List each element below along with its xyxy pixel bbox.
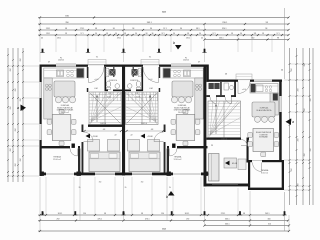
svg-text:8x18.8: 8x18.8 — [136, 97, 140, 99]
svg-text:BORAVAK: BORAVAK — [259, 136, 269, 139]
svg-text:292: 292 — [57, 219, 60, 221]
svg-text:363.1: 363.1 — [147, 22, 153, 24]
svg-text:298: 298 — [10, 107, 12, 110]
svg-text:Z2: Z2 — [114, 135, 116, 137]
svg-text:12.60 m2: 12.60 m2 — [53, 159, 61, 161]
svg-text:12.60 m2: 12.60 m2 — [174, 159, 182, 161]
svg-text:2.08/5.00: 2.08/5.00 — [221, 138, 227, 140]
svg-text:36: 36 — [150, 28, 152, 30]
svg-text:a: a — [17, 106, 19, 110]
svg-text:26.65 m2: 26.65 m2 — [61, 112, 69, 114]
svg-text:350: 350 — [141, 182, 144, 184]
svg-text:2.08/5.00: 2.08/5.00 — [141, 123, 147, 125]
svg-text:236.1: 236.1 — [222, 22, 228, 24]
svg-text:350: 350 — [99, 182, 102, 184]
svg-text:Z2: Z2 — [130, 135, 132, 137]
svg-text:408: 408 — [151, 129, 154, 131]
svg-text:787: 787 — [162, 11, 167, 14]
svg-text:298: 298 — [20, 59, 22, 62]
svg-text:98: 98 — [124, 33, 126, 35]
svg-text:98: 98 — [132, 28, 134, 30]
svg-text:36: 36 — [199, 33, 201, 35]
svg-text:240/120: 240/120 — [58, 60, 64, 62]
svg-text:324.1: 324.1 — [222, 28, 227, 30]
svg-text:298: 298 — [15, 129, 17, 132]
svg-text:36: 36 — [152, 33, 154, 35]
svg-text:98: 98 — [65, 28, 67, 30]
svg-text:292.1: 292.1 — [57, 38, 61, 40]
svg-text:b: b — [173, 41, 175, 45]
svg-text:98: 98 — [141, 213, 143, 215]
svg-text:98: 98 — [106, 33, 108, 35]
svg-text:17.1: 17.1 — [212, 33, 215, 35]
svg-text:2.08/5.00: 2.08/5.00 — [100, 123, 106, 125]
svg-text:243.1: 243.1 — [265, 213, 270, 215]
svg-text:298: 298 — [15, 164, 17, 167]
svg-text:298: 298 — [291, 69, 293, 72]
svg-text:98: 98 — [243, 213, 245, 215]
svg-text:98: 98 — [104, 213, 106, 215]
svg-text:36: 36 — [135, 33, 137, 35]
svg-text:298: 298 — [304, 109, 306, 112]
svg-text:98: 98 — [262, 33, 264, 35]
svg-text:40: 40 — [41, 38, 43, 40]
svg-text:298: 298 — [20, 159, 22, 162]
svg-text:133.1: 133.1 — [46, 28, 51, 30]
svg-text:292.1: 292.1 — [186, 38, 190, 40]
svg-text:98: 98 — [187, 33, 189, 35]
svg-text:131: 131 — [254, 33, 257, 35]
svg-text:476.1: 476.1 — [98, 219, 103, 221]
svg-text:b: b — [166, 195, 168, 199]
svg-text:17.1: 17.1 — [80, 33, 83, 35]
svg-text:KUP.: KUP. — [108, 93, 112, 95]
svg-text:363.1: 363.1 — [225, 219, 230, 221]
svg-text:8.50 m2: 8.50 m2 — [261, 172, 268, 174]
svg-text:360: 360 — [251, 38, 254, 40]
svg-text:298: 298 — [298, 139, 300, 142]
svg-text:298: 298 — [15, 89, 17, 92]
svg-text:36: 36 — [115, 33, 117, 35]
svg-text:36: 36 — [113, 28, 115, 30]
svg-text:476.1: 476.1 — [145, 219, 150, 221]
svg-text:98.1: 98.1 — [196, 28, 200, 30]
svg-text:408: 408 — [103, 129, 106, 131]
svg-text:310: 310 — [268, 224, 271, 226]
svg-text:36: 36 — [180, 28, 182, 30]
svg-text:233.1: 233.1 — [219, 38, 224, 40]
svg-text:298: 298 — [310, 149, 312, 152]
svg-text:98: 98 — [95, 28, 97, 30]
svg-text:298: 298 — [298, 89, 300, 92]
svg-text:98: 98 — [231, 33, 233, 35]
svg-text:133.1: 133.1 — [46, 33, 50, 35]
svg-text:36: 36 — [95, 33, 97, 35]
svg-text:476.1: 476.1 — [117, 38, 121, 40]
svg-text:298: 298 — [10, 69, 12, 72]
svg-text:298: 298 — [304, 154, 306, 157]
svg-text:303.1: 303.1 — [58, 213, 63, 215]
svg-text:8x18.8: 8x18.8 — [107, 97, 111, 99]
svg-text:223.1: 223.1 — [221, 213, 226, 215]
svg-text:173.1: 173.1 — [80, 28, 85, 30]
svg-text:98: 98 — [146, 33, 148, 35]
svg-text:a: a — [292, 120, 294, 124]
svg-text:150: 150 — [161, 213, 164, 215]
svg-text:303.1: 303.1 — [185, 213, 190, 215]
svg-text:363.1: 363.1 — [225, 224, 230, 226]
svg-text:40: 40 — [201, 38, 203, 40]
svg-text:97.1: 97.1 — [163, 28, 167, 30]
svg-text:298: 298 — [291, 169, 293, 172]
svg-text:36: 36 — [240, 33, 242, 35]
svg-text:292: 292 — [186, 219, 189, 221]
svg-text:BLAGOVAONICA: BLAGOVAONICA — [257, 109, 273, 112]
svg-text:±0.00: ±0.00 — [148, 79, 152, 81]
svg-text:97.1: 97.1 — [161, 33, 164, 35]
svg-text:17.1: 17.1 — [276, 33, 279, 35]
svg-text:98: 98 — [265, 28, 267, 30]
svg-text:298: 298 — [310, 99, 312, 102]
svg-text:300: 300 — [268, 219, 271, 221]
svg-text:767: 767 — [162, 228, 167, 231]
svg-text:26.65 m2: 26.65 m2 — [178, 112, 186, 114]
svg-text:98: 98 — [277, 38, 279, 40]
svg-text:V2: V2 — [96, 57, 98, 59]
svg-text:298: 298 — [298, 184, 300, 187]
svg-text:±0.00: ±0.00 — [242, 89, 246, 91]
svg-text:298: 298 — [10, 149, 12, 152]
svg-text:41.08: 41.08 — [92, 136, 98, 138]
svg-text:150: 150 — [83, 213, 86, 215]
svg-text:36: 36 — [173, 33, 175, 35]
svg-text:KUP.: KUP. — [135, 93, 139, 95]
svg-text:41.08: 41.08 — [147, 136, 153, 138]
svg-text:240/120: 240/120 — [183, 60, 189, 62]
svg-text:V2: V2 — [149, 57, 151, 59]
svg-text:298: 298 — [304, 64, 306, 67]
svg-text:Z3: Z3 — [211, 145, 213, 147]
svg-text:±0.00: ±0.00 — [94, 79, 98, 81]
svg-text:98: 98 — [65, 33, 67, 35]
svg-text:298: 298 — [20, 99, 22, 102]
svg-text:41.08: 41.08 — [232, 163, 238, 165]
